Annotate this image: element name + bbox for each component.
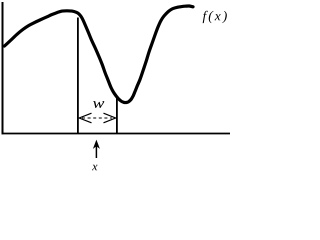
- w label: [93, 101, 104, 108]
- left arrowhead: [79, 113, 91, 123]
- x label: [92, 165, 97, 171]
- right arrowhead: [104, 113, 116, 123]
- dashed double-arrow line: [82, 117, 112, 119]
- curve f(x): [5, 6, 194, 103]
- y-axis: [2, 2, 4, 134]
- up arrow head: [93, 140, 100, 149]
- f(x) label: [203, 11, 227, 23]
- x-axis baseline: [2, 133, 231, 135]
- window right line: [116, 98, 118, 134]
- up arrow shaft: [95, 146, 97, 158]
- window left line: [77, 18, 79, 134]
